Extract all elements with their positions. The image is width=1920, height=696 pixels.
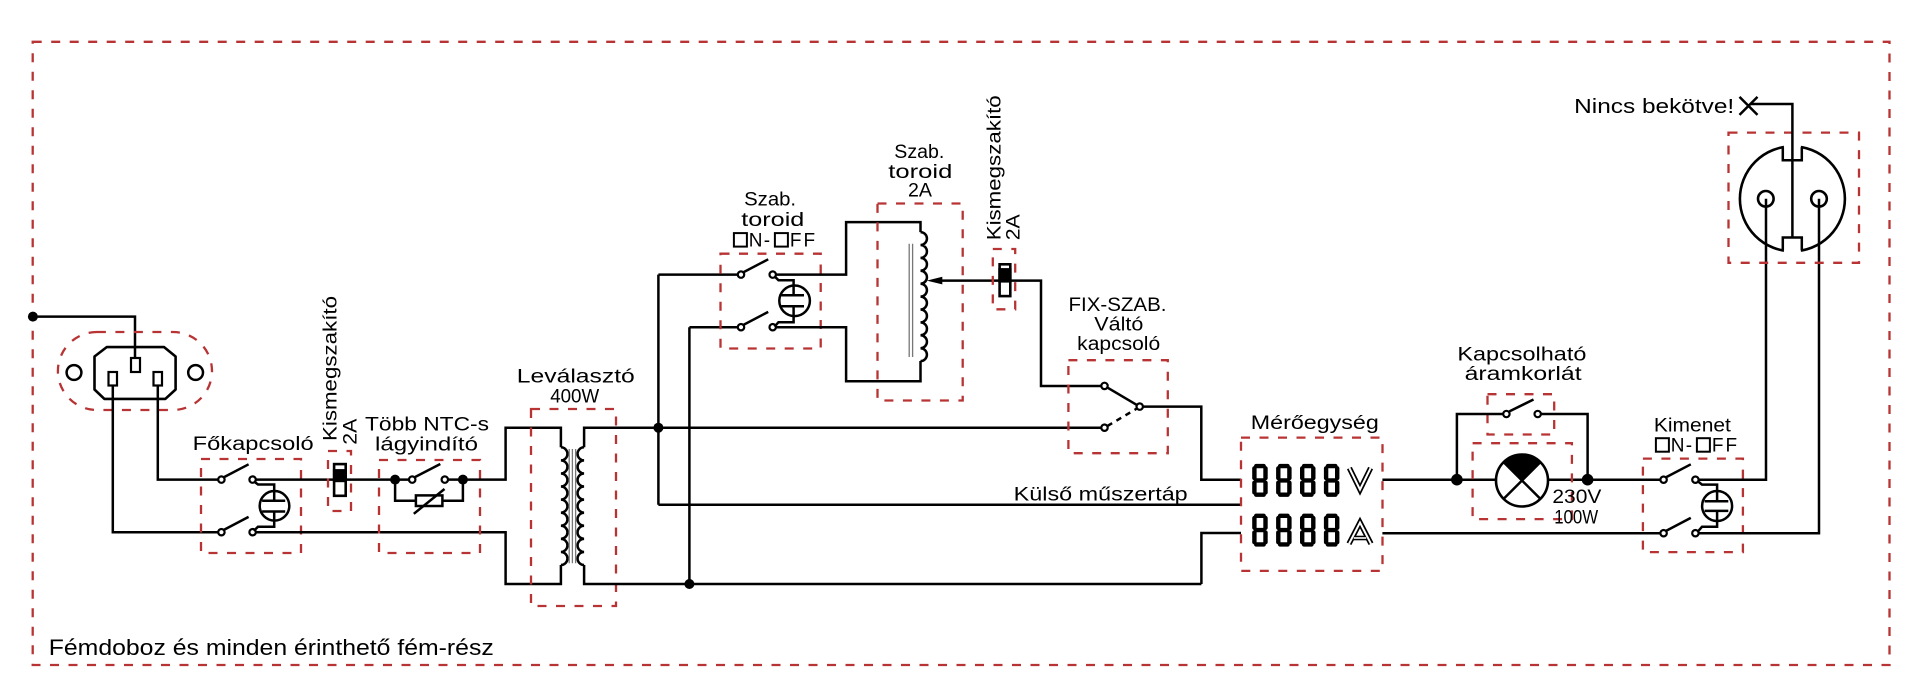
S5 pole1 contacts [1660,477,1666,483]
NTC thermistor diagonal [414,489,445,514]
S4 blade [1509,400,1533,412]
socket J2 circle [1740,146,1845,251]
svg-text:-: - [764,231,770,252]
svg-text:FIX-SZAB.: FIX-SZAB. [1069,295,1167,316]
S2 pole1 blade [743,259,768,272]
svg-text:Mérőegység: Mérőegység [1251,413,1379,434]
S3 dashed blade [1107,409,1136,426]
socket top earth notch [1783,147,1802,160]
meter unit Mérőegység dashed box [1241,438,1383,571]
svg-text:FF: FF [1712,436,1739,457]
S5 pole1 blade [1666,464,1691,477]
S1 pole2 contacts [218,529,224,535]
wire S2 bottom pole to toroid bottom [776,327,921,381]
wire N: IEC left pin down to main switch [113,386,218,533]
S1 neon lamp leads [254,481,274,531]
socket bottom earth notch [1783,238,1802,251]
breaker F1 body [334,464,346,496]
wire stubs inside pin holes [1766,199,1819,208]
output switch S5 Kimenet ON-OFF dashed box [1643,459,1743,552]
S1 pole1 blade [224,464,249,477]
S2 neon lamp electrodes [781,295,804,306]
T1 core lines [569,449,575,563]
meter V letter [1349,468,1370,490]
S1 pole2 blade [224,517,249,530]
svg-text:Fémdoboz és minden érinthető f: Fémdoboz és minden érinthető fém-rész [49,635,494,660]
S2 neon lamp leads [775,276,794,326]
wire A-meter feed from secondary bottom [1201,533,1241,584]
svg-text:Szab.: Szab. [744,190,796,211]
wire to ON-OFF switch bottom pole [689,326,737,329]
S2 pole2 contacts [738,324,744,330]
S5 pole2 contacts [1660,530,1666,536]
S5 pole2 blade [1666,518,1691,531]
meter A letter [1349,523,1371,544]
J1 earth pin [131,358,140,372]
svg-text:2A: 2A [908,180,932,201]
wire bypass around lamp [1457,414,1588,480]
T2 wiper arrow [927,277,943,285]
wire wiper to FIX switch top throw (through breaker F2) [941,281,1101,386]
svg-text:Több NTC-s: Több NTC-s [365,415,489,436]
NTC bypass switch blade [414,464,440,477]
svg-text:kapcsoló: kapcsoló [1077,334,1160,355]
S2 pole2 blade [743,312,768,325]
wire NTC out to transformer primary top [463,428,561,480]
S5 neon lamp electrodes [1705,501,1729,511]
wire L: IEC right pin down to main switch [158,386,218,480]
wire S5 top pole to socket left pin [1699,199,1766,480]
svg-text:toroid: toroid [741,210,804,231]
switch S3 FIX-SZAB váltó kapcsoló dashed box [1068,360,1167,453]
wire secondary top lead to FIX switch bottom throw [584,428,1101,448]
T1 primary winding [561,447,568,565]
lamp E1 cross [1504,462,1541,499]
node B junction dot2 [684,579,694,589]
svg-text:lágyindító: lágyindító [375,435,478,456]
svg-text:N: N [749,231,763,252]
svg-text:Kimenet: Kimenet [1654,416,1732,437]
svg-text:400W: 400W [550,386,599,407]
wire lamp to output switch [1548,478,1660,481]
T1 secondary winding [578,447,585,565]
main switch S1 Főkapcsoló dashed box [201,459,301,553]
wire S2 top pole to toroid top [776,222,921,275]
wire A-meter output row [1382,532,1660,535]
wire V-meter output row [1382,478,1496,481]
NTC thermistor body [416,495,443,506]
junction dots at lamp [1451,474,1463,486]
variac T2 Szab. toroid 2A dashed box [878,204,963,401]
wire vertical from dot2 to ON-OFF bottom pole [688,327,691,584]
wire to ON-OFF switch top pole [658,273,737,276]
breaker F2 body [1000,264,1011,296]
svg-text:-: - [1686,436,1692,457]
wire S3 common to V-meter input [1143,407,1241,480]
svg-text:Leválasztó: Leválasztó [517,366,635,387]
breaker F2 Kismegszakító 2A dashed box [993,249,1015,309]
wire NTC contact stubs [448,478,463,481]
T2 core lines [909,244,912,357]
output socket J2 dashed box [1729,133,1860,263]
S2 label ON-OFF with square O [734,231,817,252]
svg-text:FF: FF [790,231,817,252]
breaker F1 Kismegszakító 2A dashed box [328,451,351,511]
wire secondary bottom lead [584,565,1201,584]
socket left pin hole [1758,191,1774,207]
wire NTC parallel path [395,480,463,501]
current limiter switch S4 dashed box [1488,394,1555,434]
svg-text:Váltó: Váltó [1094,315,1143,336]
lamp E1 circle [1496,455,1548,507]
svg-text:N: N [1671,436,1685,457]
connector J1 IEC C14 inlet body [95,347,176,399]
svg-text:Kismegszakító: Kismegszakító [321,296,342,441]
socket right pin hole [1811,191,1827,207]
NTC soft starter dashed box [379,460,480,553]
S3 solid blade [1107,388,1136,405]
svg-text:230V: 230V [1552,487,1601,508]
J1 right pin (L) [154,372,163,386]
svg-text:áramkorlát: áramkorlát [1465,364,1583,385]
svg-text:Nincs bekötve!: Nincs bekötve! [1574,96,1734,118]
J1 left pin (N) [109,372,118,386]
meter A digits 8888 [1254,516,1337,545]
S5 neon lamp circle [1702,491,1732,521]
wire neutral row out of S1 to transformer primary bottom [256,532,561,584]
svg-text:Szab.: Szab. [894,142,944,163]
lamp E1 dashed box [1473,443,1572,519]
NTC junction dots [390,475,400,485]
svg-text:2A: 2A [341,418,362,444]
svg-text:Kapcsolható: Kapcsolható [1457,345,1586,366]
S5 neon lamp leads [1698,481,1717,531]
transformer T1 Leválasztó dashed box [531,409,616,606]
svg-text:100W: 100W [1554,508,1598,529]
connector J1 IEC C14 inlet dashed outline [58,332,212,410]
NTC bypass switch contacts [409,476,415,482]
node PE: earth junction dot on box border [28,312,38,322]
svg-text:2A: 2A [1003,214,1024,240]
T2 winding [921,232,927,361]
meter V digits 8888 [1254,466,1337,495]
S3 contacts [1101,383,1107,389]
S1 neon lamp circle [260,491,290,521]
socket notch erasers [1784,142,1801,160]
J1 right mounting hole [188,365,203,380]
S4 contacts [1503,411,1509,417]
S2 neon lamp circle [779,286,810,317]
switch S2 Szab. toroid ON-OFF dashed box [721,254,821,349]
wire phase row out of S1 to NTC block [256,478,409,481]
J1 left mounting hole [67,365,82,380]
S1 neon lamp electrodes [262,501,285,512]
wire Külső műszertáp feed [658,503,1241,506]
lamp E1 filled top quadrant [1504,454,1541,480]
S1 pole1 contacts [218,476,224,482]
X mark not connected [1740,97,1758,115]
wire earth not connected [1750,104,1792,238]
wire earth from border to IEC earth pin [33,317,135,358]
wire vertical through dot1 (to ON-OFF switch and instrument feed) [657,275,660,505]
node A junction dot1 [653,423,663,433]
S2 pole1 contacts [738,271,744,277]
svg-text:Külső műszertáp: Külső műszertáp [1014,484,1188,505]
svg-text:Főkapcsoló: Főkapcsoló [193,434,314,455]
wire S5 bottom pole to socket right pin [1699,199,1819,533]
